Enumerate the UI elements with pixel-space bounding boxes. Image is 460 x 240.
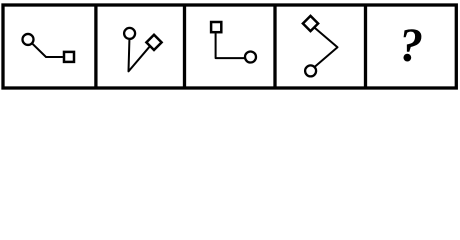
- wire: [216, 33, 245, 58]
- circle: [245, 52, 256, 63]
- svg-text:?: ?: [399, 19, 423, 72]
- wire: [129, 40, 151, 72]
- diamond: [146, 35, 161, 50]
- circle: [23, 34, 34, 45]
- divider between cell 3 and 4: [273, 5, 276, 88]
- circle: [305, 65, 316, 76]
- wire: [313, 27, 337, 67]
- divider between cell 2 and 3: [183, 5, 186, 88]
- diamond: [303, 16, 318, 31]
- square: [211, 22, 221, 32]
- circle: [124, 28, 135, 39]
- divider between cell 1 and 2: [94, 5, 97, 88]
- wire: [32, 43, 63, 57]
- outer frame of answer strip: [3, 5, 456, 88]
- divider between cell 4 and 5: [364, 5, 367, 88]
- square: [64, 52, 74, 62]
